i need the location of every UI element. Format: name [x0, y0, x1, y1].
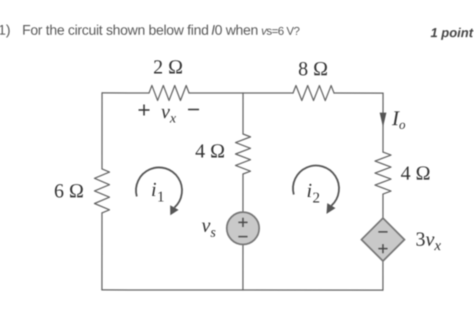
svg-text:6 Ω: 6 Ω: [54, 180, 84, 202]
vs minus sign: [238, 236, 247, 238]
diamond minus sign: [378, 231, 387, 233]
wire source to bottom: [242, 245, 244, 290]
current arrow Io head: [380, 113, 387, 128]
wire middle vertical top: [242, 93, 244, 134]
resistor R 8ohm zigzag: [293, 86, 334, 101]
mesh current i1 arc: [136, 167, 182, 207]
svg-text:3vx: 3vx: [415, 229, 441, 255]
wire left vertical bottom: [101, 213, 103, 290]
svg-text:i1: i1: [151, 179, 165, 206]
wire left vertical top: [101, 93, 103, 169]
wire right resistor to diamond: [382, 194, 384, 218]
svg-text:1 point: 1 point: [430, 25, 473, 40]
svg-text:vx: vx: [161, 101, 177, 127]
wire bottom: [102, 289, 383, 291]
wire top-middle segment: [189, 92, 293, 94]
svg-text:I0 when: I0 when: [211, 22, 258, 38]
svg-text:2 Ω: 2 Ω: [153, 56, 183, 78]
resistor R 2ohm zigzag: [149, 85, 189, 100]
wire middle to source: [242, 174, 244, 212]
vx polarity plus: [139, 104, 150, 115]
vx polarity minus: [188, 108, 199, 110]
wire right vertical top with Io: [382, 93, 384, 152]
mesh current i1 arrowhead: [170, 205, 178, 215]
resistor R 4ohm right zigzag: [375, 152, 391, 194]
wire diamond to bottom: [382, 261, 384, 290]
resistor R 6ohm zigzag: [94, 169, 109, 213]
mesh current i2 arc: [293, 166, 339, 206]
dependent source 3vx diamond: [361, 218, 404, 261]
svg-text:vs: vs: [201, 215, 216, 241]
wire top-left segment: [102, 92, 149, 94]
svg-text:For the circuit shown below fi: For the circuit shown below find: [22, 22, 209, 38]
vs plus sign: [238, 218, 247, 227]
svg-text:1): 1): [0, 22, 11, 38]
wire top-right segment: [334, 92, 383, 94]
voltage source vs circle: [227, 212, 259, 244]
svg-text:8 Ω: 8 Ω: [298, 58, 328, 80]
svg-text:vs=6 V?: vs=6 V?: [261, 26, 299, 38]
resistor R 4ohm middle zigzag: [235, 134, 250, 174]
mesh current i2 arrowhead: [326, 203, 335, 214]
svg-text:4 Ω: 4 Ω: [401, 163, 431, 185]
svg-text:i2: i2: [306, 180, 320, 207]
svg-text:Io: Io: [391, 106, 406, 132]
diamond plus sign: [378, 244, 387, 253]
svg-text:4 Ω: 4 Ω: [195, 140, 225, 162]
